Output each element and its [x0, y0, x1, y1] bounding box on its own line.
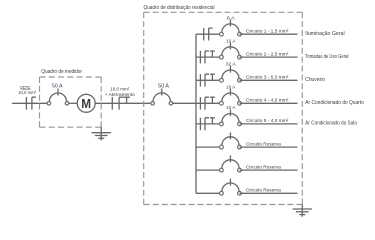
wire: bus to breaker (row 2) [196, 56, 221, 58]
svg-text:+ Aterramento: + Aterramento [105, 92, 135, 97]
label Tomadas de Uso Geral [305, 54, 348, 60]
circuit breaker (row 7) [220, 155, 242, 172]
label 10 A (row 5) [226, 105, 236, 111]
wire: bus to breaker (row 7) [196, 169, 221, 171]
wire: breaker to panel edge (row 4) [240, 102, 298, 104]
label Ar Condicionado da Sala [305, 121, 357, 127]
ground (meter panel) [92, 127, 111, 141]
label Ar Condicionado do Quarto [305, 100, 364, 106]
label Quadro de distribuicao residencial [144, 5, 215, 11]
row 3 tick (neutral) [205, 74, 209, 86]
circuit breaker (row 6) [220, 132, 242, 149]
label 32 A (row 3) [226, 62, 237, 68]
wire: service entrance feeder [12, 102, 47, 104]
wire: bus to breaker (row 6) [196, 146, 221, 148]
row 2 tick (phase) [199, 51, 201, 64]
svg-text:10,0 mm²: 10,0 mm² [18, 90, 36, 95]
wire: breaker to panel edge (row 2) [240, 56, 298, 58]
meter panel box (Quadro de medidor) [40, 77, 102, 127]
svg-text:Ar Condicionado da Sala: Ar Condicionado da Sala [305, 121, 357, 127]
wire: breaker to panel edge (row 3) [240, 79, 298, 81]
svg-text:Chuveiro: Chuveiro [305, 77, 325, 83]
wire: breaker to panel edge (row 6) [240, 146, 298, 148]
feeder conductor tick (phase) [111, 97, 113, 110]
svg-text:Circuito Reserva: Circuito Reserva [246, 188, 281, 194]
label 50 A (main breaker) [158, 84, 169, 90]
circuit breaker (row 4) [220, 89, 242, 106]
label Circuito Reserva (row 7) [246, 164, 281, 170]
svg-text:Circuito 2 - 2,5 mm²: Circuito 2 - 2,5 mm² [246, 51, 289, 57]
wire: bus to breaker (row 8) [196, 192, 221, 194]
service conductor tick (neutral) [32, 97, 36, 109]
row 1 tick (neutral) [209, 28, 213, 40]
circuit breaker (row 8) [220, 179, 242, 196]
svg-text:32 A: 32 A [226, 62, 237, 68]
row 5 tick (phase) [199, 118, 201, 131]
svg-text:Iluminação Geral: Iluminação Geral [305, 31, 344, 37]
label 10 A (row 2) [226, 38, 236, 44]
circuit breaker 50A (meter) [47, 89, 69, 106]
label Circuito Reserva (row 6) [246, 141, 281, 147]
circuit breaker (row 1) [220, 20, 242, 37]
label 10 A (row 4) [226, 85, 236, 91]
feeder conductor tick (neutral) [119, 97, 123, 109]
wire: bus to breaker (row 4) [196, 102, 221, 104]
row 2 tick (neutral) [205, 51, 209, 63]
svg-text:Circuito 5 - 4,0 mm²: Circuito 5 - 4,0 mm² [246, 118, 289, 124]
wire: breaker to meter [69, 102, 78, 104]
svg-text:Circuito 3 - 6,0 mm²: Circuito 3 - 6,0 mm² [246, 75, 289, 81]
row 2 tick (ground) [210, 51, 215, 57]
svg-text:Ar Condicionado do Quarto: Ar Condicionado do Quarto [305, 100, 364, 106]
label Circuito 1 - 1,5 mm² (row 1) [246, 29, 289, 35]
label Quadro de medidor [41, 69, 82, 75]
service conductor tick (phase) [25, 97, 27, 110]
row 1 tick (phase) [203, 28, 205, 41]
row 4 tick (phase) [199, 97, 201, 110]
label 10,0 mm2 (service) [18, 90, 36, 95]
label Circuito 3 - 6,0 mm² (row 3) [246, 75, 289, 81]
row 3 tick (ground) [210, 74, 215, 80]
wire: breaker to panel edge (row 1) [240, 33, 298, 35]
feeder conductor tick (ground) [123, 97, 130, 103]
svg-text:Tomadas de Uso Geral: Tomadas de Uso Geral [305, 54, 348, 60]
label 10,0 mm2 (feeder) [110, 87, 130, 92]
label 50 A (meter breaker) [52, 84, 63, 90]
wire: bus to breaker (row 1) [196, 33, 221, 35]
row 4 tick (neutral) [205, 97, 209, 109]
circuit breaker (row 3) [220, 66, 242, 83]
label REDE [20, 86, 31, 92]
circuit breaker (row 2) [220, 42, 242, 59]
svg-text:10,0 mm²: 10,0 mm² [110, 87, 130, 92]
ground (distribution panel) [293, 205, 312, 217]
svg-text:Circuito 1 - 1,5 mm²: Circuito 1 - 1,5 mm² [246, 29, 289, 35]
wire: breaker to panel edge (row 8) [240, 192, 298, 194]
label Circuito 5 - 4,0 mm² (row 5) [246, 118, 289, 124]
label Circuito 2 - 2,5 mm² (row 2) [246, 51, 289, 57]
svg-text:50 A: 50 A [158, 84, 169, 90]
wire: bus to breaker (row 5) [196, 123, 221, 125]
label Circuito 4 - 4,0 mm² (row 4) [246, 98, 289, 104]
svg-text:Quadro de medidor: Quadro de medidor [41, 69, 82, 75]
distribution panel box (Quadro de distribuicao residencial) [144, 12, 303, 204]
row 5 tick (ground) [210, 118, 215, 124]
row 4 tick (ground) [210, 97, 215, 103]
svg-text:Quadro de distribuição residen: Quadro de distribuição residencial [144, 5, 215, 11]
svg-text:Circuito Reserva: Circuito Reserva [246, 141, 281, 147]
circuit breaker (row 5) [220, 109, 242, 126]
svg-text:6 A: 6 A [227, 15, 236, 21]
svg-text:Circuito Reserva: Circuito Reserva [246, 164, 281, 170]
wire: main breaker to bus [173, 102, 196, 104]
wire: meter to distribution panel [95, 102, 151, 104]
bus (vertical) [195, 34, 197, 193]
svg-text:M: M [81, 97, 91, 111]
svg-text:Circuito 4 - 4,0 mm²: Circuito 4 - 4,0 mm² [246, 98, 289, 104]
wire: bus to breaker (row 3) [196, 79, 221, 81]
row 5 tick (neutral) [205, 118, 209, 130]
label Iluminação Geral [305, 31, 344, 37]
label 6 A (row 1) [227, 15, 236, 21]
label Circuito Reserva (row 8) [246, 188, 281, 194]
wire: breaker to panel edge (row 7) [240, 169, 298, 171]
energy meter M [77, 94, 95, 112]
label + Aterramento [105, 92, 135, 97]
circuit breaker 50A (main) [151, 89, 173, 106]
label Chuveiro [305, 77, 325, 83]
row 3 tick (phase) [199, 74, 201, 87]
wire: breaker to panel edge (row 5) [240, 123, 298, 125]
